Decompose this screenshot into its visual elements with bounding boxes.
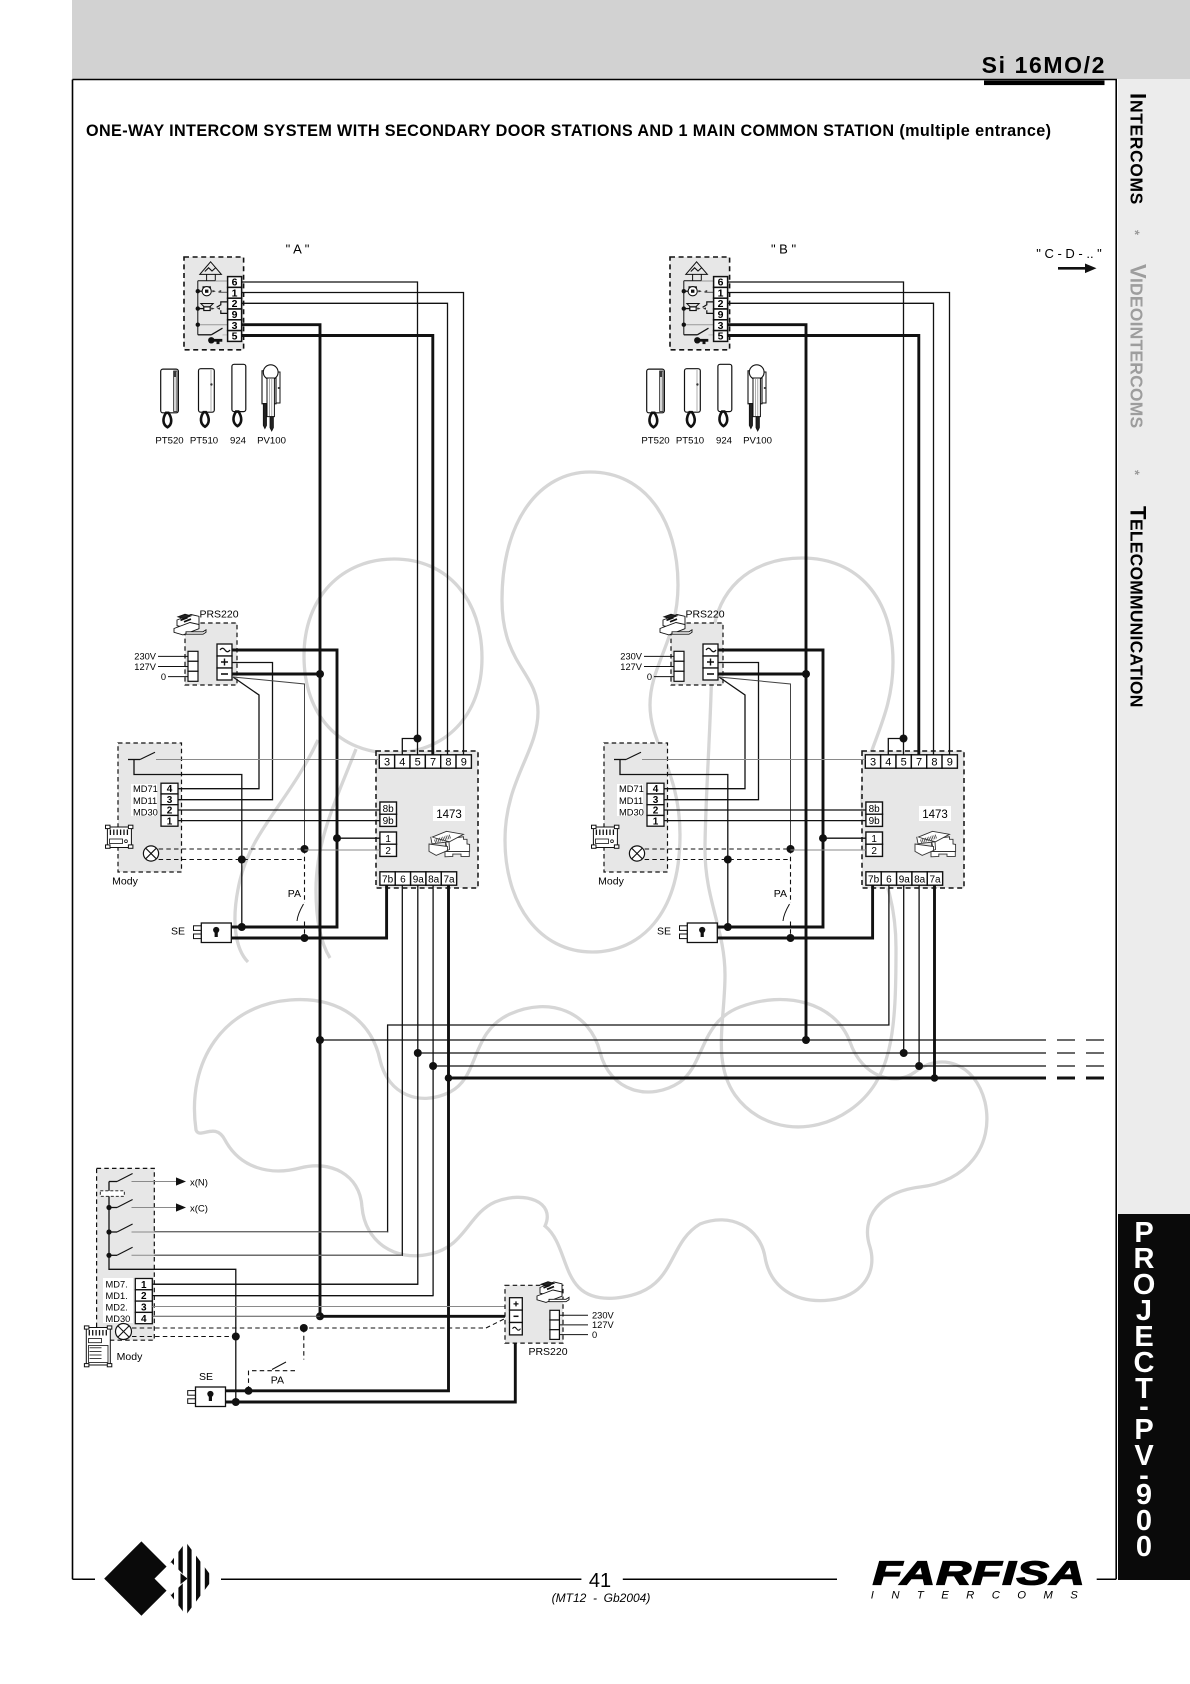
svg-text:127V: 127V	[620, 662, 643, 672]
svg-text:" A ": " A "	[286, 242, 310, 257]
svg-text:PRS220: PRS220	[685, 609, 724, 621]
svg-text:Mody: Mody	[598, 876, 624, 888]
main station call lamp	[116, 1324, 132, 1340]
svg-text:1: 1	[871, 834, 877, 845]
svg-text:x(N): x(N)	[190, 1178, 208, 1189]
svg-text:2: 2	[871, 846, 877, 857]
wire: SE to PRS220 ~ (thick, main)	[226, 1335, 516, 1402]
wire: station A terminal 1 to 1473 terminal 9	[242, 293, 464, 755]
handset PT510	[685, 369, 701, 427]
svg-text:I: I	[1126, 93, 1151, 99]
wire: PA node to 1473 terminal 2 (gray) (A)	[305, 849, 380, 851]
dashed interlock rectangle	[100, 1191, 124, 1197]
wire: MD hook switch to 1473 terminal 3 (gray) (B)	[642, 759, 865, 761]
wire: 1473-B 9a down to bus 2	[903, 885, 905, 1053]
bus wire 4: 7a net (thick)	[226, 885, 449, 1391]
svg-text:3: 3	[870, 757, 876, 769]
wire: lamp second terminal (dashed, main)	[132, 1336, 236, 1338]
electric door lock SE (B)	[657, 923, 717, 943]
svg-text:PT520: PT520	[641, 436, 669, 447]
svg-text:7b: 7b	[382, 875, 394, 886]
svg-text:0: 0	[647, 672, 652, 682]
main station terminal strip MD7./MD1./MD2./MD30	[103, 1278, 133, 1323]
svg-text:MD1.: MD1.	[106, 1291, 128, 1301]
svg-text:MD2.: MD2.	[106, 1302, 128, 1312]
station B terminal strip 6,1,2,9,3,5	[714, 277, 728, 343]
module 1473 (A) dashed box	[376, 751, 478, 888]
station A microphone	[196, 286, 228, 296]
svg-text:230V: 230V	[592, 1310, 615, 1320]
svg-text:MD30: MD30	[619, 808, 644, 818]
call lamp (A)	[143, 846, 158, 861]
power supply PRS220 (B riser) dashed box	[620, 609, 724, 686]
wire: PA to SE lower wire dot (A)	[301, 934, 309, 942]
station B key symbol	[694, 337, 708, 344]
sidebar vertical headings	[1126, 93, 1151, 708]
svg-text:7a: 7a	[443, 875, 455, 886]
wire: lamp to PA node (dashed) (B)	[645, 848, 791, 850]
switch 4 blade	[109, 1254, 117, 1256]
svg-text:Si 16MO/2: Si 16MO/2	[982, 52, 1106, 78]
svg-text:4: 4	[399, 757, 405, 769]
station A terminal strip 6,1,2,9,3,5	[228, 277, 242, 343]
main common door station dashed enclosure	[97, 1168, 155, 1340]
svg-text:MD11: MD11	[619, 796, 643, 806]
main PRS220 mains terminals	[550, 1310, 560, 1320]
wire: main terminal 2 to bus 3	[152, 1295, 433, 1297]
svg-text:PT510: PT510	[676, 436, 704, 447]
wire: 1473-B 7a down to bus 4 (thick)	[933, 885, 936, 1078]
station B buzzer triangle	[684, 262, 714, 335]
station A loudspeaker	[196, 302, 228, 314]
svg-text:4: 4	[885, 757, 891, 769]
svg-text:7b: 7b	[868, 875, 880, 886]
bottom rule	[73, 1578, 1117, 1580]
wire: MD switch common to SE circuit (B)	[620, 760, 728, 927]
wire: PRS220 - to lamp/PA node (A)	[233, 677, 305, 849]
wire: PRS220 + output to MD terminal 3 (A)	[178, 663, 273, 800]
station B hook switch	[682, 323, 714, 335]
wire: SE to 1473 7b (thick) (B)	[717, 885, 872, 938]
svg-text:0: 0	[161, 672, 166, 682]
wire: PRS220 - output to riser 3 (B) (thick)	[718, 673, 806, 676]
wire: PRS220 - to lamp/PA node (B)	[719, 677, 791, 849]
svg-text:" C - D - .. ": " C - D - .. "	[1036, 246, 1102, 261]
wire: PRS220 ~ output to 1473 terminal 1 and SE (B)	[717, 650, 823, 927]
svg-text:INTERCOMS: INTERCOMS	[871, 1590, 1095, 1602]
modules MD71/MD11/MD30 dashed box (A)	[106, 743, 182, 888]
svg-text:2: 2	[385, 846, 391, 857]
wire: 1473-A terminal 6 down to main station switch 4	[132, 885, 403, 1255]
svg-text:ONE-WAY INTERCOM SYSTEM WITH S: ONE-WAY INTERCOM SYSTEM WITH SECONDARY D…	[86, 122, 1051, 140]
svg-text:5: 5	[415, 757, 421, 769]
header gray band	[72, 0, 1190, 79]
power supply PRS220 (A riser) dashed box	[134, 609, 238, 686]
svg-text:(MT12 - Gb2004): (MT12 - Gb2004)	[552, 1591, 651, 1605]
door release button PA (B)	[774, 849, 791, 938]
wire: PA to SE lower wire dot (B)	[787, 934, 795, 942]
wire: PRS220 - to MD terminal 4 (A)	[178, 677, 259, 789]
wire: lamp to PA node (dashed) (A)	[159, 848, 305, 850]
wire: MD terminal 1 to 1473 9b (B)	[664, 820, 866, 822]
Mody module icon (B)	[592, 825, 619, 848]
station B loudspeaker	[682, 302, 714, 314]
svg-text:8: 8	[445, 757, 451, 769]
wire: MD terminal 2 to 1473 8b (B)	[664, 809, 866, 811]
wire: PRS220 + output to MD terminal 3 (B)	[664, 663, 759, 800]
svg-text:MD71: MD71	[619, 784, 644, 794]
svg-text:PV100: PV100	[257, 436, 286, 447]
bus wire 3: 8a net	[152, 885, 433, 1295]
wire: MD terminal 1 to 1473 9b (A)	[178, 820, 380, 822]
sidebar PROJECT-PV-900 black box	[1118, 1214, 1190, 1580]
wire: lamp second terminal (dashed) (B)	[645, 859, 791, 861]
svg-text:9b: 9b	[869, 816, 881, 827]
svg-text:7: 7	[430, 757, 436, 769]
switch x(N)	[109, 1181, 117, 1183]
wire: MD switch common to SE circuit (A)	[134, 760, 242, 927]
wire: MD hook switch to 1473 terminal 3 (gray) (A)	[156, 759, 379, 761]
svg-text:PA: PA	[271, 1375, 284, 1387]
handset PV100	[748, 365, 766, 431]
svg-text:5: 5	[232, 331, 238, 343]
bus wire: 1473-B terminal 6 to main station switch 3	[132, 885, 889, 1232]
svg-text:SE: SE	[199, 1371, 213, 1383]
svg-text:7a: 7a	[929, 875, 941, 886]
station A hook switch	[196, 323, 228, 335]
main PRS220 output terminals + - ~	[510, 1298, 523, 1310]
Mody module icon (A)	[106, 825, 133, 848]
wire: PA node to 1473 terminal 2 (gray) (B)	[791, 849, 866, 851]
wire: PRS220 ~ output to 1473 terminal 1 and SE (A)	[231, 650, 337, 927]
wire: station B terminal 1 to 1473 terminal 9	[728, 293, 950, 755]
svg-text:ELECOMMUNICATION: ELECOMMUNICATION	[1127, 519, 1147, 708]
arrow to stations C-D	[1058, 267, 1087, 270]
svg-text:0: 0	[1136, 1531, 1152, 1563]
sidebar PROJECT PV 900 letters	[1133, 1217, 1156, 1563]
svg-text:7: 7	[916, 757, 922, 769]
svg-text:8b: 8b	[869, 804, 881, 815]
wire: station A terminal 5 to 1473 terminal 7 (thick)	[242, 336, 433, 755]
wire: station B terminal 5 to 1473 terminal 7 (thick)	[728, 336, 919, 755]
ACI logo diamonds	[104, 1541, 224, 1617]
svg-text:1473: 1473	[922, 809, 948, 821]
svg-text:1: 1	[385, 834, 391, 845]
svg-text:PA: PA	[774, 888, 787, 900]
svg-text:*: *	[1128, 230, 1143, 236]
svg-text:924: 924	[716, 436, 733, 447]
handset 924	[232, 364, 246, 426]
wire: station A terminal 2 to 1473 terminal 8	[242, 303, 448, 755]
svg-text:MD30: MD30	[106, 1314, 131, 1324]
svg-text:1: 1	[167, 816, 173, 827]
bus wire 2: 9a net	[152, 885, 418, 1284]
svg-text:9: 9	[461, 757, 467, 769]
wire: lamp second terminal (dashed) (A)	[159, 859, 305, 861]
electric door lock SE (A)	[171, 923, 231, 943]
svg-text:9a: 9a	[899, 875, 911, 886]
FARFISA logo	[871, 1554, 1095, 1602]
svg-text:V: V	[1126, 264, 1151, 279]
page border frame	[73, 80, 1117, 1580]
svg-text:6: 6	[400, 875, 406, 886]
svg-text:9: 9	[947, 757, 953, 769]
handset PT520	[161, 369, 179, 427]
svg-text:PRS220: PRS220	[528, 1346, 567, 1358]
bus wire 1: net from riser 3 (to stations C-D)	[320, 1039, 1046, 1041]
svg-text:127V: 127V	[592, 1320, 615, 1330]
svg-text:8a: 8a	[914, 875, 926, 886]
wire: SE to 1473 7b (thick) (A)	[231, 885, 386, 938]
svg-text:SE: SE	[657, 926, 671, 938]
svg-text:3: 3	[384, 757, 390, 769]
door release button PA (A)	[288, 849, 305, 938]
svg-text:Mody: Mody	[112, 876, 138, 888]
wire: 1473-B 8a down to bus 3	[918, 885, 920, 1066]
svg-text:5: 5	[901, 757, 907, 769]
svg-text:" B ": " B "	[771, 242, 797, 257]
handset PV100	[262, 365, 280, 431]
svg-text:MD7.: MD7.	[106, 1280, 128, 1290]
svg-text:230V: 230V	[134, 652, 157, 662]
wire: station B terminal 6 to 1473 terminals 4/5	[728, 282, 904, 755]
wire: PRS220 - output to riser 3 (A) (thick)	[232, 673, 320, 676]
svg-text:MD71: MD71	[133, 784, 158, 794]
call lamp (B)	[629, 846, 644, 861]
svg-text:*: *	[1128, 470, 1143, 476]
svg-text:0: 0	[592, 1330, 597, 1340]
svg-text:230V: 230V	[620, 652, 643, 662]
wire: riser 3 from station B terminal 3 down to bus (thick)	[728, 325, 806, 1040]
sidebar gray strip	[1118, 79, 1190, 1214]
svg-text:NTERCOMS: NTERCOMS	[1127, 100, 1147, 205]
main station selector switch chain	[109, 1182, 236, 1403]
svg-text:PA: PA	[288, 888, 301, 900]
svg-text:PV100: PV100	[743, 436, 772, 447]
station A buzzer triangle	[198, 262, 228, 335]
wire: station A terminal 6 to 1473 terminals 4/5	[242, 282, 418, 755]
handset PT520	[647, 369, 665, 427]
svg-text:9a: 9a	[413, 875, 425, 886]
svg-text:MD30: MD30	[133, 808, 158, 818]
svg-text:PT510: PT510	[190, 436, 218, 447]
handset 924	[718, 364, 732, 426]
svg-text:SE: SE	[171, 926, 185, 938]
intercom station A dashed enclosure	[184, 257, 244, 350]
switch 3 blade	[109, 1231, 117, 1233]
svg-text:x(C): x(C)	[190, 1204, 208, 1215]
svg-text:6: 6	[886, 875, 892, 886]
switch x(C)	[109, 1207, 117, 1209]
svg-text:IDEOINTERCOMS: IDEOINTERCOMS	[1127, 278, 1147, 428]
svg-text:8: 8	[931, 757, 937, 769]
watermark curves	[194, 472, 986, 1301]
wire: PRS220 - to MD terminal 4 (B)	[664, 677, 745, 789]
svg-text:924: 924	[230, 436, 247, 447]
svg-text:FARFISA: FARFISA	[873, 1554, 1086, 1592]
svg-text:8a: 8a	[428, 875, 440, 886]
wire: riser 3 from station A terminal 3 down to main station (thick)	[242, 325, 320, 1317]
wire: MD terminal 2 to 1473 8b (A)	[178, 809, 380, 811]
svg-text:1473: 1473	[436, 809, 462, 821]
handset PT510	[199, 369, 215, 427]
station A key symbol	[208, 337, 222, 344]
modules MD71/MD11/MD30 dashed box (B)	[592, 743, 668, 888]
transformer icon (main PRS220)	[537, 1282, 569, 1303]
wire: main terminal 3 to PRS220 + (gray)	[152, 1306, 509, 1308]
svg-text:9b: 9b	[383, 816, 395, 827]
module 1473 (B) dashed box	[862, 751, 964, 888]
svg-text:T: T	[1126, 506, 1151, 520]
svg-text:Mody: Mody	[117, 1351, 143, 1363]
wire: main terminal 1 to bus 2	[152, 1283, 418, 1285]
intercom station B dashed enclosure	[670, 257, 730, 350]
power supply PRS220 (main) dashed box	[505, 1285, 563, 1343]
station B microphone	[682, 286, 714, 296]
svg-text:41: 41	[589, 1570, 611, 1592]
Mody module icon (main)	[84, 1326, 111, 1367]
svg-text:MD11: MD11	[133, 796, 157, 806]
svg-text:1: 1	[653, 816, 659, 827]
svg-text:PT520: PT520	[155, 436, 183, 447]
wire: lamp to PA node (dashed, main)	[132, 1327, 486, 1329]
svg-text:PRS220: PRS220	[199, 609, 238, 621]
wire: main terminal 4 to PRS220 - via riser dot	[152, 1315, 320, 1317]
svg-text:8b: 8b	[383, 804, 395, 815]
svg-text:5: 5	[718, 331, 724, 343]
svg-text:4: 4	[141, 1314, 147, 1325]
svg-text:127V: 127V	[134, 662, 157, 672]
wire: station B terminal 2 to 1473 terminal 8	[728, 303, 934, 755]
